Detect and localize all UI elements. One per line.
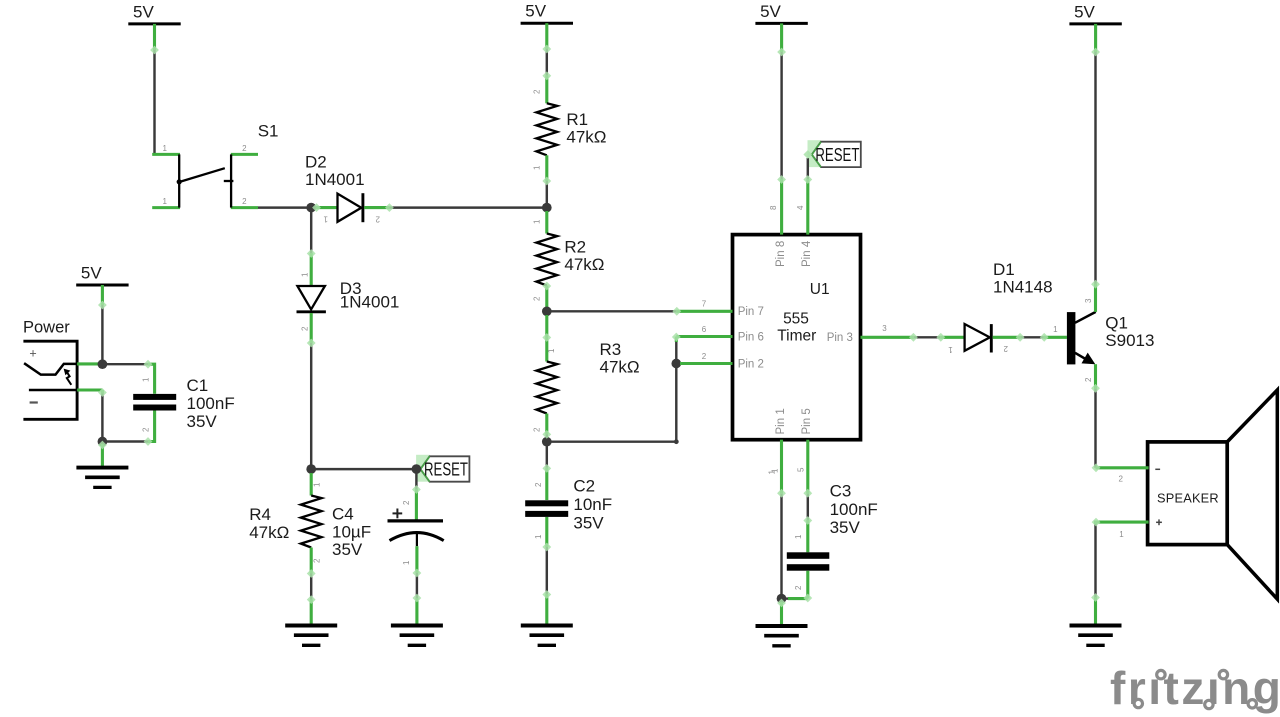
svg-text:2: 2 <box>702 352 707 361</box>
svg-text:47kΩ: 47kΩ <box>564 255 604 274</box>
svg-text:1: 1 <box>534 534 543 539</box>
svg-text:Timer: Timer <box>777 328 816 345</box>
svg-text:Pin 2: Pin 2 <box>738 359 764 371</box>
svg-text:+: + <box>29 347 36 361</box>
svg-text:2: 2 <box>242 144 247 153</box>
svg-text:1: 1 <box>768 470 777 475</box>
svg-text:1: 1 <box>1053 325 1058 334</box>
svg-text:RESET: RESET <box>815 145 859 165</box>
svg-text:Pin 4: Pin 4 <box>801 240 813 267</box>
svg-text:1: 1 <box>313 482 322 487</box>
svg-text:C1: C1 <box>187 376 209 395</box>
svg-text:R1: R1 <box>566 110 588 129</box>
svg-text:5V: 5V <box>81 264 102 283</box>
svg-text:5: 5 <box>797 467 806 472</box>
svg-text:1: 1 <box>162 144 167 153</box>
svg-text:47kΩ: 47kΩ <box>600 357 640 376</box>
svg-text:Power: Power <box>23 319 70 337</box>
svg-text:100nF: 100nF <box>830 500 878 519</box>
svg-text:1: 1 <box>142 377 151 382</box>
svg-text:S1: S1 <box>258 122 279 141</box>
svg-text:7: 7 <box>702 300 707 309</box>
svg-text:1: 1 <box>547 348 556 353</box>
svg-text:2: 2 <box>794 585 803 590</box>
svg-text:Pin 5: Pin 5 <box>801 408 813 434</box>
svg-text:100nF: 100nF <box>187 394 235 413</box>
svg-text:35V: 35V <box>830 518 861 537</box>
svg-text:555: 555 <box>783 311 809 328</box>
svg-text:R4: R4 <box>249 505 271 524</box>
svg-text:2: 2 <box>1003 344 1008 353</box>
svg-text:1: 1 <box>533 219 542 224</box>
svg-text:4: 4 <box>796 205 805 210</box>
svg-text:5V: 5V <box>1074 2 1095 21</box>
svg-text:2: 2 <box>533 89 542 94</box>
svg-text:2: 2 <box>534 482 543 487</box>
svg-text:5V: 5V <box>525 2 546 21</box>
svg-text:2: 2 <box>533 427 542 432</box>
svg-text:C2: C2 <box>573 477 595 496</box>
svg-text:Pin 1: Pin 1 <box>775 408 787 434</box>
svg-text:1N4001: 1N4001 <box>340 292 400 311</box>
svg-text:2: 2 <box>313 558 322 563</box>
svg-text:2: 2 <box>242 197 247 206</box>
svg-text:Pin 7: Pin 7 <box>738 306 764 318</box>
svg-text:D2: D2 <box>305 153 327 172</box>
svg-text:C4: C4 <box>332 505 354 524</box>
svg-text:35V: 35V <box>573 514 604 533</box>
svg-text:8: 8 <box>769 205 778 210</box>
svg-text:1: 1 <box>323 215 328 224</box>
svg-text:2: 2 <box>301 326 310 331</box>
svg-text:2: 2 <box>1118 475 1123 484</box>
svg-text:D1: D1 <box>993 260 1015 279</box>
svg-text:1: 1 <box>1119 530 1124 539</box>
svg-text:C3: C3 <box>830 482 852 501</box>
svg-text:6: 6 <box>702 325 707 334</box>
svg-text:U1: U1 <box>810 281 830 298</box>
svg-text:Q1: Q1 <box>1105 314 1128 333</box>
svg-text:1: 1 <box>402 560 411 565</box>
svg-text:10µF: 10µF <box>332 523 371 542</box>
svg-text:3: 3 <box>1084 298 1093 303</box>
svg-text:2: 2 <box>402 500 411 505</box>
svg-text:3: 3 <box>882 324 887 333</box>
svg-text:1N4001: 1N4001 <box>305 170 365 189</box>
svg-text:Pin 6: Pin 6 <box>738 332 764 344</box>
svg-text:Pin 3: Pin 3 <box>827 332 853 344</box>
svg-text:RESET: RESET <box>424 459 468 479</box>
svg-text:1: 1 <box>794 534 803 539</box>
svg-text:R3: R3 <box>600 340 622 359</box>
svg-text:1: 1 <box>162 197 167 206</box>
svg-text:1: 1 <box>301 272 310 277</box>
svg-text:47kΩ: 47kΩ <box>566 127 606 146</box>
svg-text:1: 1 <box>948 345 953 354</box>
svg-text:SPEAKER: SPEAKER <box>1157 490 1219 505</box>
svg-text:5V: 5V <box>760 2 781 21</box>
svg-text:R2: R2 <box>564 238 586 257</box>
svg-text:1N4148: 1N4148 <box>993 278 1053 297</box>
svg-text:35V: 35V <box>187 412 218 431</box>
svg-text:2: 2 <box>1084 377 1093 382</box>
svg-text:Pin 8: Pin 8 <box>775 241 787 267</box>
svg-text:2: 2 <box>142 427 151 432</box>
svg-text:1: 1 <box>533 165 542 170</box>
svg-text:10nF: 10nF <box>573 495 612 514</box>
svg-text:2: 2 <box>533 296 542 301</box>
svg-text:S9013: S9013 <box>1105 331 1154 350</box>
svg-text:2: 2 <box>375 215 380 224</box>
svg-text:47kΩ: 47kΩ <box>249 523 289 542</box>
svg-text:5V: 5V <box>133 2 154 21</box>
svg-text:35V: 35V <box>332 540 363 559</box>
